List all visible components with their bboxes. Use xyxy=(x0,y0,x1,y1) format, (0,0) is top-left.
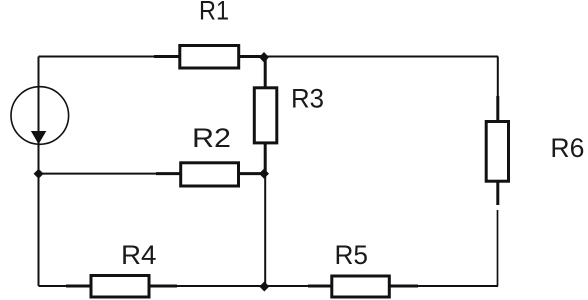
svg-text:R1: R1 xyxy=(199,0,229,26)
wire: R4 right lead xyxy=(149,285,177,288)
current source xyxy=(11,87,69,145)
wire: left rail vertical xyxy=(38,57,40,287)
wire: R5 right lead xyxy=(389,285,418,288)
wire: R1 left lead xyxy=(154,55,180,58)
svg-text:R2: R2 xyxy=(192,123,231,153)
wire: R3 bottom lead xyxy=(264,143,267,174)
resistor R1 xyxy=(180,46,239,69)
junction J1 (R1 / R3 / top rail) xyxy=(259,52,269,63)
junction J2 (left rail / R2 branch) xyxy=(34,169,44,179)
wire: top rail horizontal xyxy=(39,56,499,58)
junction J3 (R2 / R3 / middle column) xyxy=(259,169,269,179)
wire: right rail vertical lower (after gap) xyxy=(497,210,499,286)
wire: right rail vertical upper xyxy=(497,57,499,206)
resistor R4 xyxy=(91,276,149,298)
wire: R2 right lead xyxy=(238,172,264,175)
svg-text:R6: R6 xyxy=(550,133,584,163)
junction J4 (middle column / bottom rail) xyxy=(259,282,269,292)
wire: R5 left lead xyxy=(308,285,333,288)
resistor R6 xyxy=(486,122,508,182)
svg-text:R4: R4 xyxy=(121,240,157,270)
svg-text:R5: R5 xyxy=(335,240,369,270)
wire: R3 top lead xyxy=(264,57,267,88)
wire: R6 bottom lead xyxy=(496,181,499,205)
wire: bottom rail horizontal xyxy=(39,285,499,287)
resistor R5 xyxy=(332,276,390,297)
wire: R2 left lead xyxy=(156,172,182,175)
wire: middle vertical node column xyxy=(264,57,266,287)
resistor R2 xyxy=(181,163,239,186)
wire: R6 top lead xyxy=(496,96,499,122)
wire: R1 right lead xyxy=(238,55,264,58)
resistor R3 xyxy=(254,88,276,143)
wire: R2 branch horizontal xyxy=(39,173,266,175)
svg-text:R3: R3 xyxy=(291,84,324,114)
wire: R4 left lead xyxy=(66,285,92,288)
